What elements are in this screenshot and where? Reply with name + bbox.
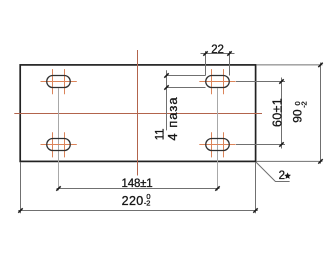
- extension line through right slot column: [217, 88, 219, 190]
- dimension 148 tick left: [56, 186, 60, 190]
- dimension 220 tick left: [18, 208, 22, 212]
- dimension 90 line: [320, 63, 322, 164]
- slot bottom-left outline: [47, 139, 71, 151]
- dimension 90 extension lines: [257, 65, 323, 161]
- horizontal axis centerline: [14, 113, 262, 115]
- svg-text:220: 220: [122, 194, 144, 208]
- star symbol: [284, 172, 291, 178]
- dimension 220 tick right: [253, 208, 257, 212]
- extension line through left slot column: [58, 88, 60, 190]
- dimension 60 line: [281, 78, 283, 149]
- vertical axis centerline: [137, 50, 139, 176]
- slot bottom-right outline: [206, 139, 230, 151]
- svg-text:2: 2: [279, 170, 285, 182]
- svg-text:90: 90: [291, 109, 305, 123]
- svg-text:-2: -2: [144, 199, 150, 208]
- dimension 11 line: [166, 70, 168, 130]
- dimension 220 line: [18, 210, 258, 212]
- dimension 90 tick bottom: [318, 159, 322, 163]
- svg-text:148±1: 148±1: [122, 178, 153, 190]
- dimension 60 extension lines: [236, 82, 285, 145]
- dimension 11 tick bottom: [164, 85, 168, 89]
- slot top-left outline: [47, 76, 71, 88]
- slot top-right centerlines: [199, 69, 235, 94]
- slot bottom-right centerlines: [199, 132, 235, 157]
- slot bottom-left centerlines: [41, 132, 77, 157]
- dimension 90 tick top: [318, 63, 322, 67]
- dimension 22 tick left: [203, 51, 207, 55]
- slot top-left centerlines: [41, 69, 77, 94]
- dimension 22 extension lines: [206, 51, 230, 76]
- dimension 148 tick right: [215, 186, 219, 190]
- dimension 148 line: [57, 188, 220, 190]
- leader line for 2* note: [256, 162, 290, 182]
- dimension 60 tick bottom: [279, 142, 283, 146]
- dimension 22 line: [201, 53, 235, 55]
- svg-text:4 паза: 4 паза: [165, 96, 180, 140]
- plate outline: [20, 65, 255, 161]
- svg-text:-2: -2: [299, 102, 308, 108]
- slot top-right outline: [206, 76, 230, 88]
- svg-text:22: 22: [211, 44, 223, 56]
- dimension 220 extension lines: [21, 162, 256, 213]
- svg-text:60±1: 60±1: [270, 98, 284, 127]
- dimension 11 extension lines (slot width): [167, 76, 206, 88]
- dimension 11 tick top: [164, 73, 168, 77]
- dimension 60 tick top: [279, 79, 283, 83]
- dimension 22 tick right: [227, 51, 231, 55]
